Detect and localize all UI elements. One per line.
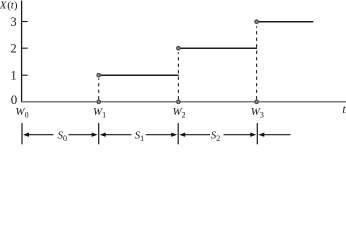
axis marker circle at W1 (97, 100, 101, 104)
ruler bar W3 (256, 123, 258, 144)
step segment level 2 (179, 47, 257, 49)
ruler bar W0 (21, 123, 23, 144)
y-axis (21, 1, 23, 103)
ruler bar W1 (98, 123, 100, 144)
dashed line W2 (177, 52, 179, 99)
S3 partial line (263, 134, 290, 136)
axis marker circle at W3 (255, 100, 259, 104)
step segment level 1 (99, 74, 179, 76)
svg-text:W2: W2 (173, 106, 186, 120)
svg-text:0: 0 (11, 92, 18, 107)
S3 partial left arrowhead (258, 133, 264, 137)
svg-text:S0: S0 (58, 130, 68, 144)
dashed line W1 (98, 78, 100, 99)
svg-text:W1: W1 (93, 106, 106, 120)
tick 1 (22, 74, 28, 76)
S2 left arrowhead (179, 133, 185, 137)
S2 left line (184, 134, 210, 136)
svg-text:W3: W3 (251, 106, 264, 120)
corner circle at W2 level 2 (177, 46, 181, 50)
tick 3 (22, 21, 28, 23)
S0 right line (69, 134, 93, 136)
corner circle at W1 level 1 (97, 73, 101, 77)
step segment level 3 (257, 21, 313, 23)
svg-text:t: t (342, 102, 346, 116)
corner circle at W3 level 3 (255, 20, 259, 24)
S1 left line (105, 134, 132, 136)
S2 right line (224, 134, 252, 136)
S1 right arrowhead (171, 133, 177, 137)
S0 left line (28, 134, 54, 136)
t-axis (22, 101, 346, 103)
svg-text:2: 2 (10, 42, 16, 56)
S1 right line (146, 134, 172, 136)
ruler bar W2 (177, 123, 179, 144)
S2 right arrowhead (250, 133, 256, 137)
svg-text:W0: W0 (15, 106, 28, 120)
dashed line W3 (256, 26, 258, 99)
svg-text:3: 3 (10, 15, 16, 29)
S0 left arrowhead (23, 133, 29, 137)
axis marker circle at W2 (177, 100, 181, 104)
svg-text:): ) (14, 0, 18, 11)
S1 left arrowhead (100, 133, 106, 137)
S0 right arrowhead (92, 133, 98, 137)
svg-text:S1: S1 (135, 130, 145, 144)
tick 2 (22, 47, 28, 49)
svg-text:1: 1 (10, 69, 16, 83)
svg-text:S2: S2 (211, 130, 221, 144)
